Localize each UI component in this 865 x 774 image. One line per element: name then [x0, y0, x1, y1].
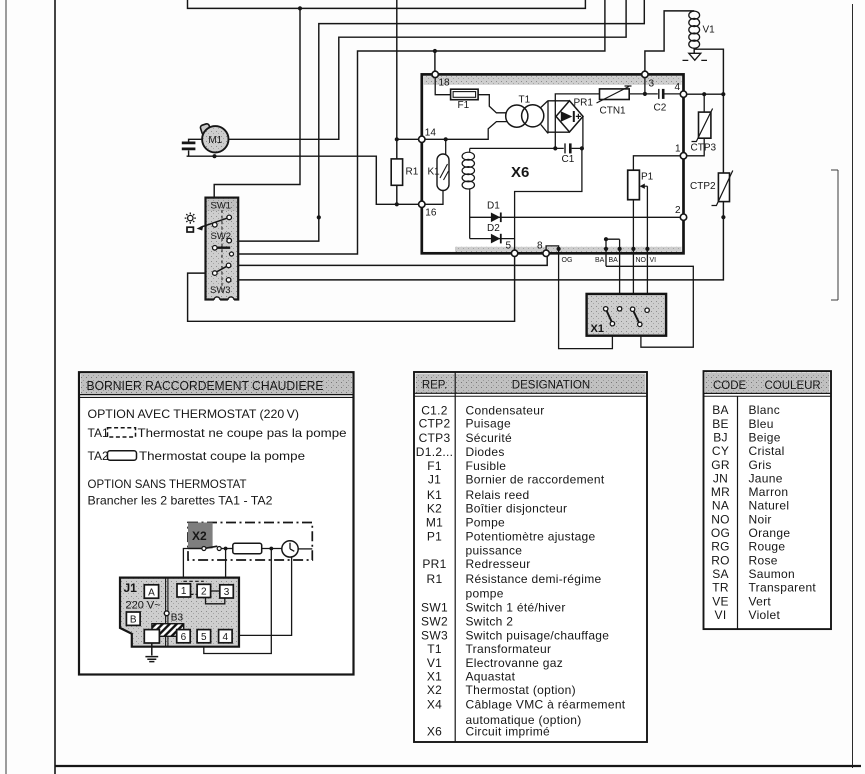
svg-text:JN: JN — [713, 471, 728, 485]
svg-text:BA: BA — [595, 257, 605, 264]
svg-text:CTN1: CTN1 — [600, 106, 627, 117]
svg-text:Vert: Vert — [749, 594, 772, 608]
svg-text:NO: NO — [636, 257, 647, 264]
svg-text:V1: V1 — [427, 656, 442, 670]
svg-text:VI: VI — [650, 257, 657, 264]
svg-text:Fusible: Fusible — [466, 459, 507, 473]
svg-text:Thermostat coupe la pompe: Thermostat coupe la pompe — [139, 449, 305, 463]
svg-text:Condensateur: Condensateur — [466, 403, 545, 417]
svg-text:TA1: TA1 — [88, 426, 109, 440]
svg-text:Naturel: Naturel — [749, 498, 790, 512]
svg-text:CTP2: CTP2 — [690, 181, 716, 192]
svg-text:D1.2...: D1.2... — [416, 445, 453, 459]
svg-text:pompe: pompe — [466, 586, 504, 600]
svg-text:BORNIER RACCORDEMENT CHAUDIERE: BORNIER RACCORDEMENT CHAUDIERE — [87, 378, 324, 393]
svg-text:VI: VI — [715, 608, 727, 622]
svg-text:BJ: BJ — [713, 430, 728, 444]
svg-text:Violet: Violet — [749, 608, 781, 622]
svg-text:Gris: Gris — [749, 458, 772, 472]
svg-text:J1: J1 — [124, 581, 138, 595]
svg-text:RO: RO — [711, 553, 730, 567]
svg-text:GR: GR — [711, 458, 730, 472]
svg-text:MR: MR — [711, 485, 730, 499]
svg-text:Blanc: Blanc — [749, 403, 781, 417]
svg-text:R1: R1 — [406, 167, 419, 178]
svg-text:B: B — [130, 615, 137, 626]
svg-text:Marron: Marron — [749, 485, 789, 499]
svg-text:C1.2: C1.2 — [421, 403, 448, 417]
svg-text:14: 14 — [425, 127, 437, 138]
svg-text:PR1: PR1 — [574, 98, 594, 109]
svg-text:Bleu: Bleu — [749, 417, 774, 431]
svg-text:4: 4 — [223, 632, 229, 643]
svg-text:Switch 2: Switch 2 — [466, 614, 514, 628]
svg-text:Sécurité: Sécurité — [466, 431, 512, 445]
svg-text:X6: X6 — [427, 725, 442, 739]
svg-text:Câblage VMC à réarmement: Câblage VMC à réarmement — [466, 698, 626, 712]
svg-text:R1: R1 — [427, 572, 443, 586]
svg-text:SA: SA — [712, 567, 729, 581]
svg-text:Electrovanne gaz: Electrovanne gaz — [466, 656, 564, 670]
svg-text:Switch 1 été/hiver: Switch 1 été/hiver — [466, 601, 566, 615]
svg-text:Redresseur: Redresseur — [466, 557, 531, 571]
svg-text:1: 1 — [675, 144, 681, 155]
svg-text:Brancher les 2 barettes TA1 -: Brancher les 2 barettes TA1 - TA2 — [88, 494, 273, 508]
svg-text:RG: RG — [711, 540, 730, 554]
svg-text:X1: X1 — [427, 670, 442, 684]
svg-text:Transparent: Transparent — [749, 581, 817, 595]
svg-text:PR1: PR1 — [422, 557, 446, 571]
svg-text:COULEUR: COULEUR — [765, 380, 821, 392]
svg-text:1: 1 — [181, 586, 187, 597]
svg-text:REP.: REP. — [422, 380, 447, 392]
svg-text:C2: C2 — [654, 103, 667, 114]
svg-text:J1: J1 — [428, 473, 441, 487]
svg-text:CTP3: CTP3 — [419, 431, 451, 445]
svg-text:Thermostat (option): Thermostat (option) — [466, 683, 576, 697]
svg-text:Cristal: Cristal — [749, 444, 785, 458]
svg-text:CTP3: CTP3 — [691, 143, 717, 154]
svg-text:3: 3 — [649, 79, 655, 90]
svg-text:X4: X4 — [427, 698, 442, 712]
svg-text:F1: F1 — [458, 100, 470, 111]
svg-text:V1: V1 — [703, 25, 716, 36]
svg-text:DESIGNATION: DESIGNATION — [512, 380, 590, 392]
svg-text:SW3: SW3 — [210, 285, 231, 296]
svg-text:4: 4 — [674, 82, 680, 93]
svg-text:OPTION SANS THERMOSTAT: OPTION SANS THERMOSTAT — [88, 477, 248, 491]
svg-text:K2: K2 — [427, 501, 442, 515]
svg-text:K1: K1 — [428, 167, 441, 178]
svg-text:3: 3 — [224, 587, 230, 598]
svg-text:SW1: SW1 — [421, 601, 448, 615]
svg-text:X2: X2 — [192, 529, 207, 543]
svg-text:Rose: Rose — [749, 553, 778, 567]
svg-text:Noir: Noir — [749, 512, 772, 526]
svg-text:5: 5 — [505, 241, 511, 252]
svg-text:SW1: SW1 — [211, 201, 232, 212]
svg-text:Beige: Beige — [749, 430, 781, 444]
svg-text:BA: BA — [609, 257, 619, 264]
svg-text:Circuit imprimé: Circuit imprimé — [466, 725, 551, 739]
svg-text:CY: CY — [712, 444, 729, 458]
svg-text:D2: D2 — [487, 223, 500, 234]
svg-text:P1: P1 — [427, 529, 442, 543]
svg-text:8: 8 — [537, 241, 543, 252]
svg-text:NA: NA — [712, 498, 729, 512]
svg-text:16: 16 — [425, 208, 437, 219]
svg-text:CTP2: CTP2 — [419, 417, 451, 431]
svg-text:2: 2 — [675, 205, 681, 216]
svg-text:puissance: puissance — [466, 544, 523, 558]
svg-text:BE: BE — [712, 417, 729, 431]
svg-text:Aquastat: Aquastat — [466, 670, 516, 684]
svg-text:Pompe: Pompe — [466, 516, 506, 530]
svg-text:T1: T1 — [427, 642, 442, 656]
svg-text:SW3: SW3 — [421, 629, 448, 643]
svg-text:2: 2 — [201, 587, 207, 598]
svg-text:M1: M1 — [208, 135, 222, 146]
svg-text:Résistance demi-régime: Résistance demi-régime — [466, 572, 602, 586]
svg-text:TA2: TA2 — [88, 449, 109, 463]
svg-text:F1: F1 — [427, 459, 442, 473]
svg-text:Boîtier disjoncteur: Boîtier disjoncteur — [466, 501, 568, 515]
svg-text:OG: OG — [711, 526, 730, 540]
svg-text:VE: VE — [712, 594, 729, 608]
svg-text:Saumon: Saumon — [749, 567, 796, 581]
svg-text:18: 18 — [439, 78, 451, 89]
svg-text:X2: X2 — [427, 683, 442, 697]
svg-text:6: 6 — [181, 632, 187, 643]
svg-text:OG: OG — [562, 257, 573, 264]
svg-text:Bornier de raccordement: Bornier de raccordement — [466, 473, 605, 487]
svg-text:Transformateur: Transformateur — [466, 642, 552, 656]
svg-text:Thermostat ne coupe pas la pom: Thermostat ne coupe pas la pompe — [138, 426, 347, 440]
svg-text:X6: X6 — [511, 164, 529, 181]
svg-text:220 V~: 220 V~ — [126, 600, 161, 612]
svg-text:T1: T1 — [519, 95, 531, 106]
svg-text:P1: P1 — [641, 172, 654, 183]
svg-text:TR: TR — [712, 581, 729, 595]
svg-text:A: A — [148, 587, 155, 598]
svg-text:BA: BA — [712, 403, 729, 417]
svg-text:K1: K1 — [427, 488, 442, 502]
svg-text:Potentiomètre ajustage: Potentiomètre ajustage — [466, 529, 596, 543]
svg-text:NO: NO — [711, 512, 730, 526]
svg-text:Jaune: Jaune — [749, 471, 783, 485]
svg-text:5: 5 — [201, 632, 207, 643]
svg-text:Diodes: Diodes — [466, 445, 505, 459]
svg-text:D1: D1 — [487, 201, 500, 212]
svg-text:Relais reed: Relais reed — [466, 488, 530, 502]
svg-text:CODE: CODE — [713, 380, 747, 392]
svg-text:M1: M1 — [426, 516, 443, 530]
svg-text:B3: B3 — [171, 613, 184, 624]
svg-text:C1: C1 — [562, 154, 575, 165]
svg-text:OPTION AVEC THERMOSTAT (220 V): OPTION AVEC THERMOSTAT (220 V) — [88, 407, 300, 421]
svg-text:Orange: Orange — [749, 526, 791, 540]
svg-text:Rouge: Rouge — [749, 540, 786, 554]
svg-text:SW2: SW2 — [421, 614, 448, 628]
svg-text:X1: X1 — [591, 323, 604, 335]
svg-text:Puisage: Puisage — [466, 417, 511, 431]
svg-text:Switch puisage/chauffage: Switch puisage/chauffage — [466, 629, 610, 643]
